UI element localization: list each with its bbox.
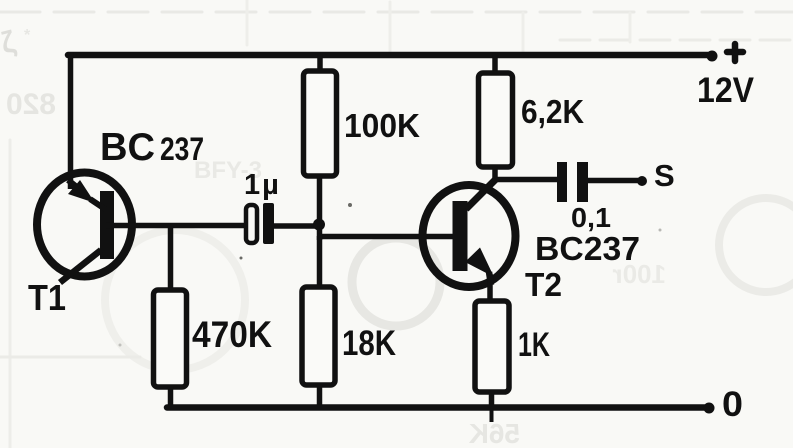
resistor 18K	[302, 287, 335, 385]
resistor 6.2K	[479, 73, 513, 167]
svg-text:1µ: 1µ	[244, 169, 279, 201]
wire capacitor to node	[272, 223, 322, 229]
wire 100K top stub	[317, 55, 323, 72]
wire 470K drop	[168, 226, 174, 292]
resistor 470K	[154, 290, 187, 387]
wire 1K bottom	[489, 392, 495, 407]
svg-text:1K: 1K	[518, 326, 550, 364]
svg-text:12V: 12V	[697, 71, 755, 110]
svg-text:100K: 100K	[344, 107, 420, 144]
svg-text:BC: BC	[100, 126, 155, 169]
transistor T2 collector diagonal	[466, 179, 496, 209]
svg-text:470K: 470K	[192, 314, 272, 355]
svg-text:0: 0	[722, 385, 743, 424]
transistor T2 base bar	[453, 201, 468, 271]
capacitor C1 1u left plate	[246, 205, 257, 243]
transistor T1 emitter arrow	[68, 180, 105, 209]
wire bottom 0V rail	[167, 404, 711, 411]
node junction dot	[313, 219, 325, 231]
terminal dot plus rail end	[707, 51, 718, 62]
svg-text:820: 820	[6, 88, 56, 121]
junction stub below rail	[490, 407, 494, 422]
svg-text:T1: T1	[28, 277, 66, 318]
svg-text:18K: 18K	[342, 324, 396, 363]
transistor T1 collector diagonal	[60, 250, 101, 283]
wire top +12V rail	[68, 52, 713, 59]
plus symbol	[727, 44, 743, 61]
svg-text:*: *	[24, 27, 31, 44]
scan specks	[119, 203, 662, 347]
svg-text:0,1: 0,1	[571, 202, 611, 233]
terminal dot bottom rail end	[704, 403, 715, 414]
transistor T1 body circle	[37, 173, 132, 277]
svg-text:237: 237	[160, 131, 204, 167]
resistor 100K	[304, 71, 337, 176]
wire node to T2 base	[318, 234, 453, 240]
wire 470K bottom	[168, 387, 174, 407]
capacitor C1 1u right plate	[263, 203, 274, 244]
svg-text:T2: T2	[525, 266, 562, 303]
wire left drop from rail to T1	[68, 52, 74, 189]
terminal dot S	[637, 176, 647, 186]
resistor 1K	[475, 301, 509, 392]
svg-text:6,2K: 6,2K	[521, 93, 584, 130]
transistor T2 body circle	[423, 185, 516, 287]
wire 100K bottom to node	[317, 176, 323, 240]
wire T1 base lead to capacitor	[106, 223, 245, 229]
svg-text:56K: 56K	[469, 418, 520, 448]
svg-text:S: S	[654, 158, 675, 193]
transistor T1 base bar	[100, 191, 114, 259]
wire collector junction to output cap	[493, 177, 558, 183]
wire 6.2K bottom to junction	[492, 167, 498, 181]
wire output cap to S terminal	[588, 178, 641, 184]
svg-text:BC237: BC237	[535, 230, 640, 267]
wire 6.2K top stub	[492, 55, 498, 74]
wire T2 emitter to 1K	[487, 282, 493, 302]
transistor T2 emitter arrow	[465, 248, 494, 286]
wire 18K bottom	[317, 385, 323, 407]
wire 18K top	[317, 236, 323, 288]
capacitor C2 0,1 right plate	[577, 162, 588, 202]
capacitor C2 0,1 left plate	[557, 162, 567, 202]
